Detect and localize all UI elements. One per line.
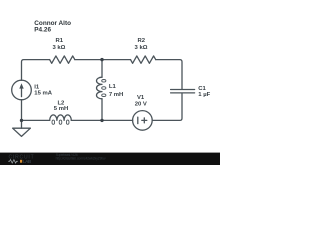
wire ground junction to L2 bbox=[22, 119, 50, 121]
svg-text:1 µF: 1 µF bbox=[198, 92, 210, 98]
svg-text:I1: I1 bbox=[34, 84, 40, 90]
wire left riser and top-left corner bbox=[22, 60, 50, 81]
svg-text:http://circuitlab.com/c42wk2ky: http://circuitlab.com/c42wk2ky29fuv bbox=[56, 156, 106, 160]
watermark bar bbox=[0, 153, 220, 165]
wire R1 to node A bbox=[75, 59, 102, 61]
V1 minus bar bbox=[137, 117, 139, 123]
svg-text:7 mH: 7 mH bbox=[109, 92, 123, 98]
I1 arrow shaft bbox=[21, 87, 23, 96]
watermark logo orange block bbox=[20, 160, 22, 163]
wire C1 to bottom-right corner to V1 right lead bbox=[153, 93, 182, 120]
svg-text:3 kΩ: 3 kΩ bbox=[135, 45, 148, 51]
inductor L2 loops bbox=[52, 120, 69, 124]
resistor R2 bbox=[131, 56, 156, 63]
node A junction dot bbox=[100, 58, 103, 61]
I1 arrow head bbox=[19, 83, 23, 88]
current source I1 bbox=[12, 80, 32, 100]
svg-text:20 V: 20 V bbox=[135, 102, 147, 108]
voltage source V1 bbox=[133, 111, 153, 131]
svg-text:L1: L1 bbox=[109, 84, 117, 90]
ground stem bbox=[21, 120, 23, 128]
resistor R1 bbox=[50, 56, 75, 63]
svg-text:R2: R2 bbox=[138, 38, 146, 44]
svg-text:R1: R1 bbox=[56, 38, 64, 44]
svg-text:15 mA: 15 mA bbox=[34, 91, 52, 97]
ground junction dot bbox=[20, 119, 23, 122]
wire V1 left lead to node B bbox=[102, 119, 133, 121]
wire node A down to L1 bbox=[101, 60, 103, 78]
wire I1 to ground junction bbox=[21, 100, 23, 121]
svg-text:P4.26: P4.26 bbox=[34, 27, 51, 34]
ground triangle bbox=[13, 128, 31, 136]
watermark logo zigzag bbox=[8, 160, 17, 163]
wire node A to R2 bbox=[102, 59, 131, 61]
wire node B to L2 bbox=[71, 119, 102, 121]
wire L1 to node B bbox=[101, 99, 103, 121]
inductor L1 loops bbox=[102, 80, 106, 97]
svg-text:3 kΩ: 3 kΩ bbox=[52, 45, 65, 51]
svg-text:V1: V1 bbox=[137, 95, 145, 101]
wire R2 to top-right corner down to C1 bbox=[156, 60, 182, 89]
inductor L2 bbox=[50, 115, 72, 121]
node B junction dot bbox=[100, 119, 103, 122]
svg-text:LAB: LAB bbox=[23, 159, 32, 165]
inductor L1 bbox=[96, 77, 102, 99]
capacitor C1 bbox=[171, 90, 195, 93]
V1 plus sign bbox=[142, 118, 147, 123]
svg-text:5 mH: 5 mH bbox=[54, 106, 68, 112]
